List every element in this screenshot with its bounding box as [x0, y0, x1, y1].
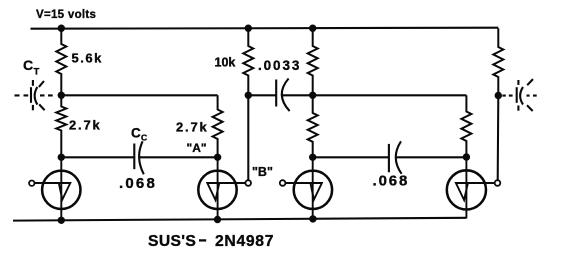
svg-text:C: C [141, 133, 147, 143]
node dot R1/R2/CT junction [58, 92, 65, 99]
SUS Q3 [286, 157, 332, 219]
caption SUS'S - 2N4987 [148, 233, 274, 250]
value label 5.6k [72, 51, 103, 66]
gate terminal Q4 (open circle) [495, 180, 501, 186]
svg-text:.0033: .0033 [258, 58, 301, 73]
svg-text:"A": "A" [187, 141, 207, 155]
resistor R6 (lower mid-right) [308, 95, 318, 157]
label CC [131, 126, 147, 143]
capacitor C .0033 [248, 79, 312, 112]
wire node row right-right segment [397, 156, 467, 158]
node dot Q2 cathode [214, 216, 221, 223]
svg-text:.068: .068 [119, 175, 157, 192]
node dot rail/R4 [245, 25, 252, 32]
wire node row right-left segment [313, 156, 389, 158]
svg-text:2N4987: 2N4987 [215, 233, 274, 250]
resistor R8 (far right) [493, 28, 503, 95]
value label 2.7k (left) [69, 118, 102, 133]
svg-text:2.7k: 2.7k [176, 120, 209, 135]
svg-text:10k: 10k [215, 56, 236, 70]
svg-text:2.7k: 2.7k [69, 118, 102, 133]
node dot right [463, 153, 470, 160]
svg-text:SUS'S: SUS'S [148, 233, 196, 250]
node dot rail/R1 [58, 25, 65, 32]
node dot rail/R5 [309, 25, 316, 32]
node A label [187, 141, 207, 155]
value label 2.7k (right) [176, 120, 209, 135]
svg-text:T: T [34, 67, 40, 78]
gate terminal node B (open circle) [245, 180, 251, 186]
ground return rail (bottom bus) [13, 218, 466, 221]
capacitor C .068 (right) [389, 141, 402, 174]
node dot mid-right [309, 154, 316, 161]
gate terminal Q1 (open circle) [29, 181, 34, 186]
wire node A row right segment [140, 156, 218, 158]
capacitor CC .068 [134, 141, 144, 174]
node B label [252, 165, 273, 179]
value label .068 (left) [119, 175, 157, 192]
resistor R2 2.7k (left) [56, 95, 66, 157]
node dot Q1 cathode [58, 217, 65, 224]
caption dash [199, 239, 206, 241]
wire upper cross-coupling right (312,95)-(466,95) [313, 94, 467, 96]
node dot R8/dashed-cap junction [495, 92, 502, 99]
svg-text:"B": "B" [252, 165, 273, 179]
capacitor right dashed (external) [502, 79, 536, 111]
gate terminal Q3 (open circle) [280, 180, 286, 186]
capacitor CT (dashed external timing capacitor) [15, 80, 53, 110]
label CT [23, 57, 40, 78]
label V=15 volts [36, 9, 96, 21]
resistor R7 (right 2.7k equivalent) [461, 95, 471, 157]
resistor R4 10k [243, 28, 253, 95]
resistor R3 2.7k (right) [213, 95, 223, 157]
supply rail V+ (top bus) [31, 28, 499, 29]
value label 10k [215, 56, 236, 70]
wire R8 junction to Q4 gate [497, 96, 500, 181]
wire node A row left segment [61, 156, 134, 158]
node dot Q3 cathode [309, 215, 316, 222]
svg-text:V=15 volts: V=15 volts [36, 9, 96, 21]
node dot A [214, 154, 221, 161]
SUS Q2 [198, 157, 245, 220]
svg-text:5.6k: 5.6k [72, 51, 103, 66]
SUS Q4 [447, 157, 494, 218]
SUS Q1 [35, 157, 81, 221]
wire node B drop [247, 95, 249, 180]
svg-text:C: C [23, 57, 33, 73]
resistor R5 (upper mid-right) [308, 28, 318, 95]
svg-text:C: C [131, 126, 141, 141]
node dot R4/C.0033/B junction [245, 92, 252, 99]
value label .068 (right) [373, 173, 410, 190]
node dot R5/R6 junction [309, 92, 316, 99]
node dot A-row left [58, 154, 65, 161]
svg-text:.068: .068 [373, 173, 410, 190]
value label .0033 [258, 58, 301, 73]
wire upper cross-coupling (61,95)-(217,95) [61, 94, 217, 96]
resistor R1 5.6k [56, 28, 66, 95]
